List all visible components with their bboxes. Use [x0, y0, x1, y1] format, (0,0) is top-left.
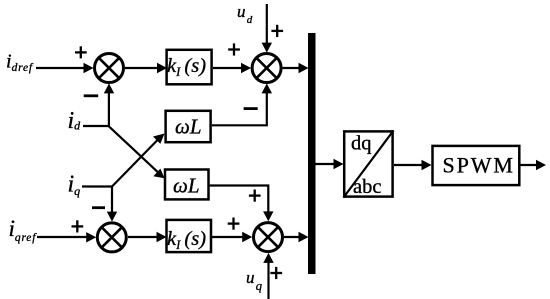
wire S2 to bus bar — [283, 67, 302, 69]
arrowhead into S4 bottom — [263, 253, 273, 263]
arrowhead into DQ left — [334, 159, 344, 169]
minus at S3 top input — [92, 206, 105, 209]
arrowhead into K1 — [157, 63, 167, 73]
wire u_q up to S4 — [267, 259, 269, 299]
arrowhead into W2 left — [153, 169, 164, 179]
block K1 kI(s) — [167, 50, 212, 85]
arrowhead into SPWM left — [422, 160, 432, 170]
arrowhead into S4 left — [242, 232, 252, 242]
arrowhead output — [536, 160, 546, 170]
wire diagonal i_q to W1 — [112, 140, 158, 187]
arrowhead into W1 left — [153, 134, 165, 144]
summing junction S3 — [97, 223, 126, 252]
plus at S1 left input — [75, 46, 87, 58]
wire i_d node up to S1 — [108, 89, 110, 126]
wire u_d down to S2 — [266, 4, 268, 46]
arrowhead into S1 bottom — [104, 83, 114, 93]
block W1 omega-L — [166, 111, 211, 142]
wire diagonal i_d to W2 — [109, 126, 159, 172]
arrowhead into S3 top — [107, 212, 117, 222]
summing junction S4 — [254, 223, 283, 252]
plus at S4 bottom input — [270, 267, 282, 279]
plus at S4 left input — [228, 218, 240, 230]
plus at S4 top input — [249, 190, 261, 202]
bus bar — [308, 33, 316, 274]
wire i_q node down to S3 — [111, 187, 113, 216]
wire i_d to node — [83, 125, 109, 127]
arrowhead into S3 left — [86, 232, 96, 242]
wire W1 to under S2 then up — [212, 90, 267, 125]
svg-text:ωL: ωL — [173, 174, 200, 198]
wire W2 to above S4 then down — [210, 186, 269, 216]
arrowhead into S1 left — [84, 63, 94, 73]
svg-text:dq: dq — [351, 133, 372, 155]
block K2 kI(s) — [167, 220, 212, 252]
arrowhead into S2 left — [241, 63, 251, 73]
arrowhead into S2 bottom — [262, 83, 272, 93]
arrowhead into S2 top — [262, 43, 272, 53]
wire i_qref to S3 — [37, 236, 89, 238]
minus at S2 bottom input — [244, 107, 258, 110]
block DQ dq/abc — [344, 131, 394, 199]
wire bar to DQ block — [316, 163, 337, 165]
arrowhead into K2 — [157, 232, 167, 242]
plus at S3 left input — [72, 220, 84, 232]
arrowhead into bar (top) — [299, 63, 309, 73]
wire K2 to S4 — [212, 236, 245, 238]
svg-text:ωL: ωL — [175, 115, 202, 139]
wire S1 to K1 — [125, 67, 159, 69]
wire S3 to K2 — [128, 236, 159, 238]
svg-text:abc: abc — [353, 176, 381, 198]
minus at S1 bottom input — [84, 94, 99, 97]
svg-text:kI (s): kI (s) — [167, 228, 206, 252]
wire K1 to S2 — [213, 67, 244, 69]
plus at S2 left input — [228, 43, 240, 55]
summing junction S2 — [252, 54, 281, 83]
wire i_dref to S1 — [36, 67, 86, 69]
wire DQ to SPWM — [394, 164, 425, 166]
plus at S2 top input — [271, 25, 283, 37]
svg-text:kI (s): kI (s) — [167, 55, 206, 79]
arrowhead into S4 top — [263, 211, 273, 221]
summing junction S1 — [95, 54, 124, 83]
block SPWM — [433, 146, 520, 185]
block W2 omega-L — [165, 170, 209, 200]
wire S4 to bus bar — [284, 236, 302, 238]
svg-text:SPWM: SPWM — [443, 153, 515, 178]
wire SPWM output — [520, 164, 539, 166]
wire i_q to node — [82, 185, 112, 187]
arrowhead into bar (bottom) — [299, 232, 309, 242]
